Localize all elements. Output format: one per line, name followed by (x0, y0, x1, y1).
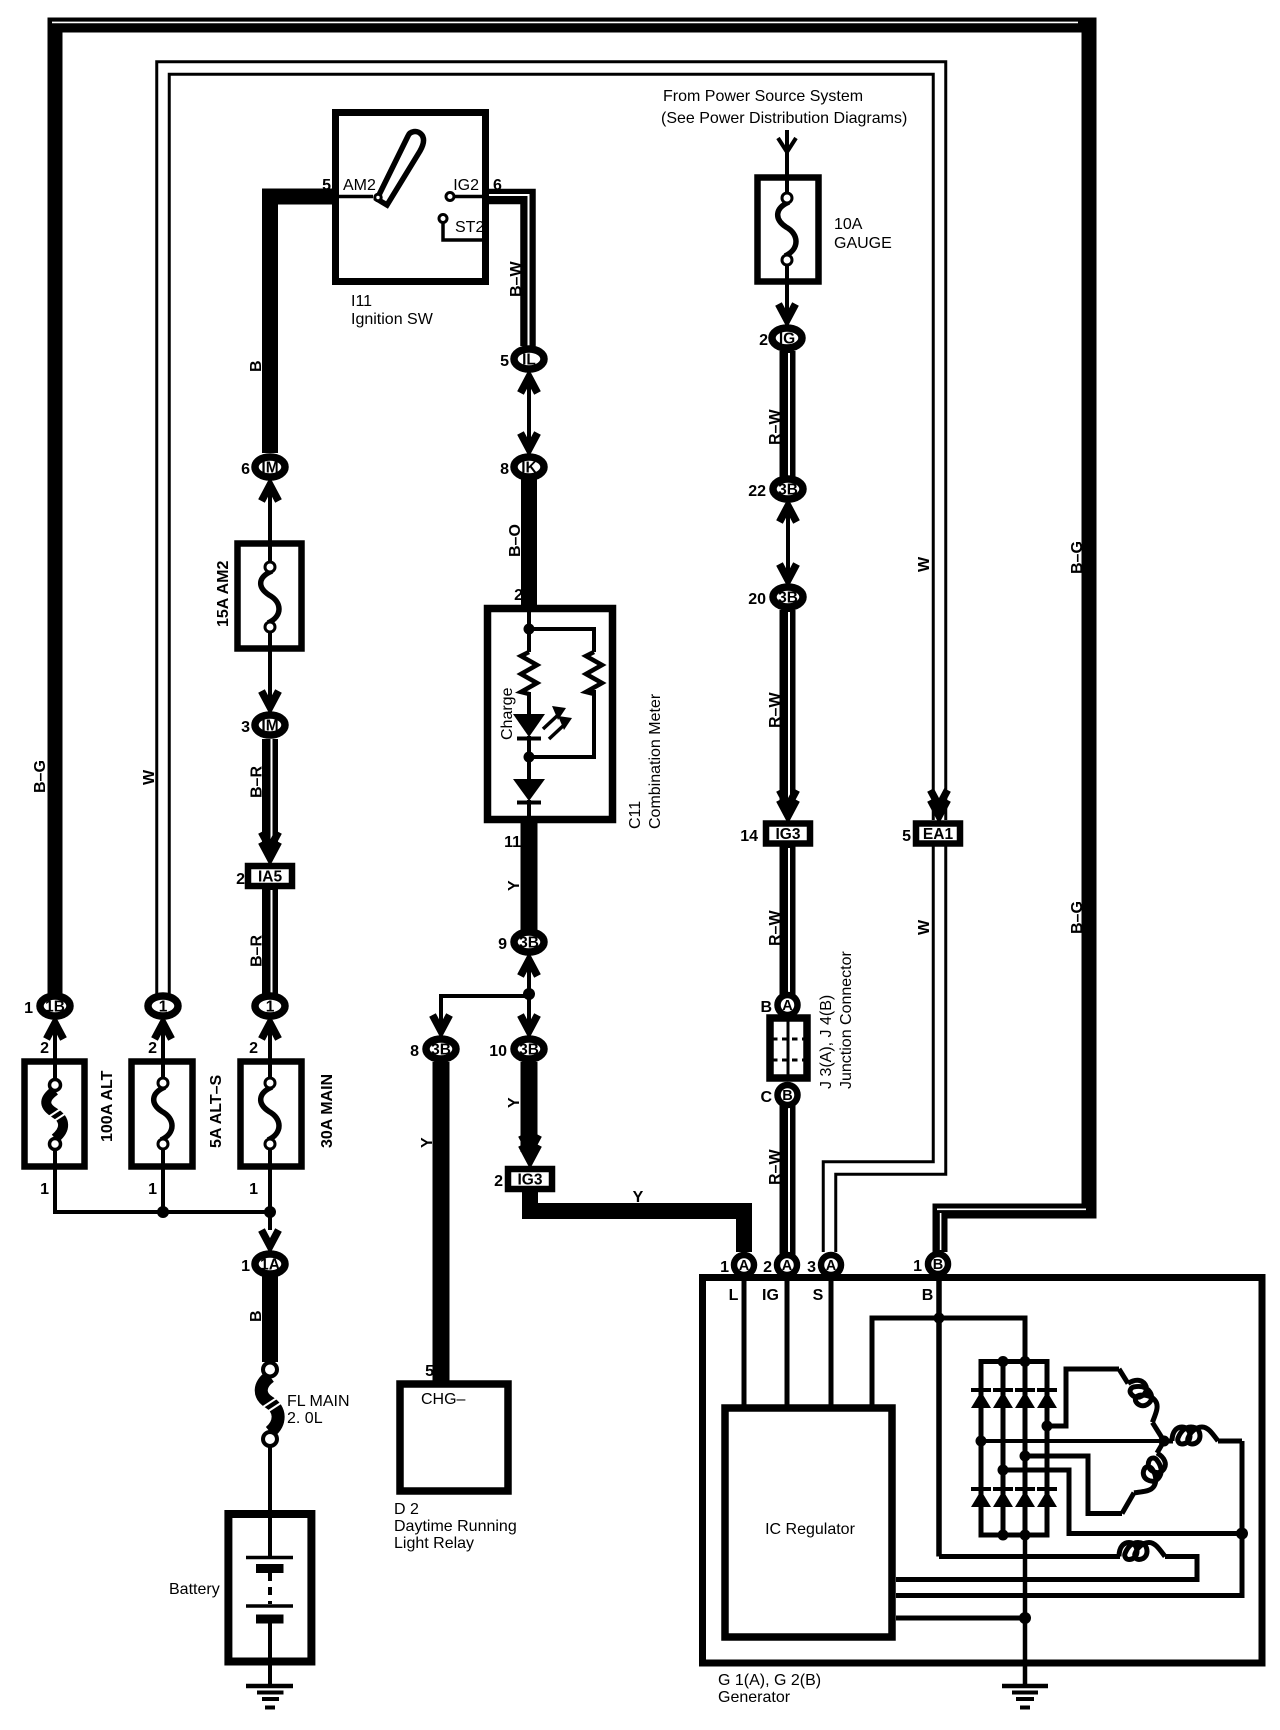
svg-text:I11: I11 (351, 293, 372, 310)
svg-text:B: B (782, 1088, 792, 1104)
ignition pin AM2 line (335, 195, 373, 199)
svg-text:B–G: B–G (1069, 541, 1086, 574)
fuse element 30A MAIN (261, 1078, 279, 1149)
label C11 Combination Meter (627, 693, 664, 829)
svg-text:EA1: EA1 (923, 826, 954, 843)
svg-text:R–W: R–W (767, 910, 784, 946)
wire thin junction bus at y1212 with 100A ALT leg (55, 1150, 270, 1212)
connector 1 1B (24, 996, 70, 1017)
stator tap from column 2 (998, 1465, 1240, 1534)
connector 2 IA5 (236, 866, 292, 888)
svg-text:GAUGE: GAUGE (834, 235, 892, 252)
svg-text:1: 1 (266, 999, 275, 1016)
wire R-W IG to 3B-22 (788, 351, 790, 477)
stator tap from column 4 (1042, 1369, 1120, 1432)
wire thin 5A ALT-S leg to junction (161, 1149, 165, 1212)
fuse element 5A ALT-S (154, 1078, 172, 1149)
svg-text:1A: 1A (260, 1257, 280, 1274)
wire thin connector 1 to fuse 5A ALT-S (161, 1019, 165, 1078)
wire Y IG3 to generator L terminal (530, 1192, 744, 1252)
wire B-R IM to IA5 (270, 739, 272, 845)
wire B-G main loop (left, top, right) (52, 22, 1089, 1252)
label W left (141, 769, 158, 785)
svg-text:CHG–: CHG– (421, 1391, 466, 1408)
wire thin FL MAIN to battery (268, 1447, 272, 1556)
label 30A MAIN (319, 1074, 336, 1148)
svg-text:30A MAIN: 30A MAIN (319, 1074, 336, 1148)
svg-text:1: 1 (159, 999, 168, 1016)
svg-text:3B: 3B (519, 935, 539, 952)
svg-text:R–W: R–W (767, 409, 784, 445)
label B-R lower (249, 935, 266, 967)
arrow double into IG3 mid (522, 1135, 539, 1161)
svg-text:(See Power Distribution Diagra: (See Power Distribution Diagrams) (661, 110, 907, 127)
svg-text:5: 5 (425, 1363, 434, 1380)
svg-text:14: 14 (740, 828, 758, 845)
svg-text:15A AM2: 15A AM2 (215, 561, 232, 627)
svg-text:Battery: Battery (169, 1581, 220, 1598)
svg-text:1: 1 (24, 1000, 33, 1017)
svg-text:2: 2 (763, 1259, 772, 1276)
connector 1 1A (241, 1254, 285, 1275)
svg-text:Daytime Running: Daytime Running (394, 1518, 517, 1535)
daytime running light relay box D2 (400, 1384, 508, 1491)
label Y mid (506, 1097, 523, 1108)
svg-text:W: W (916, 919, 933, 935)
arrow into 1A (262, 1230, 279, 1246)
rectifier columns (981, 1362, 1047, 1536)
charge indicator LED (513, 706, 572, 739)
label Y relay (419, 1137, 436, 1148)
arrow into connector 1 mid (155, 1023, 172, 1039)
svg-text:2: 2 (759, 332, 768, 349)
connector 6 IM (241, 457, 285, 478)
label ignition pins (322, 177, 502, 236)
label B-G left (32, 760, 49, 793)
label from power source (661, 88, 907, 127)
svg-text:IM: IM (261, 718, 278, 735)
label B-O (507, 524, 524, 557)
svg-text:A: A (782, 998, 793, 1014)
combination meter box C11 (488, 609, 613, 820)
svg-text:Ignition SW: Ignition SW (351, 311, 434, 328)
arrow into IL (521, 377, 538, 393)
svg-text:B: B (922, 1287, 934, 1304)
svg-text:B–G: B–G (32, 760, 49, 793)
label 100A ALT (99, 1070, 116, 1142)
arrow into 3B-8 (433, 1015, 450, 1031)
rectifier diodes top row (971, 1390, 1057, 1408)
svg-text:Y: Y (506, 1097, 523, 1108)
svg-text:2: 2 (514, 587, 523, 604)
svg-text:B–R: B–R (249, 766, 266, 798)
ignition pin IG2 line and contact (446, 193, 486, 201)
wire R-W 3B-20 to IG3 (788, 610, 790, 808)
wire W upper (hollow, from fuse 5A ALT-S up over top to EA1) (163, 68, 940, 995)
wire thin 3B-22 to 3B-20 (786, 502, 790, 584)
svg-text:B: B (760, 999, 772, 1016)
svg-text:W: W (916, 556, 933, 572)
connector 5 IL (500, 349, 544, 370)
svg-text:Combination Meter: Combination Meter (647, 693, 664, 829)
wire thin IM to fuse 15A AM2 (268, 481, 272, 562)
ground below generator (1002, 1686, 1048, 1708)
rectifier top bus (979, 1356, 1050, 1367)
resistor left in meter (521, 652, 537, 694)
wire R-W junction connector B to generator IG terminal (788, 1104, 790, 1255)
battery cells (246, 1558, 293, 1685)
wire thin fuse 15A AM2 to IM (268, 632, 272, 711)
connector 8 3B (410, 1039, 456, 1060)
fuse box 10A GAUGE (758, 178, 819, 282)
svg-text:10A: 10A (834, 216, 863, 233)
label D2 relay pin and name (394, 1363, 517, 1552)
arrow into IG (779, 304, 796, 320)
label generator terminals (729, 1287, 934, 1304)
stator tap from column 3 (1020, 1451, 1123, 1514)
connector 8 IK (500, 457, 544, 478)
arrow into 3B-9 (521, 960, 538, 976)
label J3 J4 junction connector (818, 950, 855, 1089)
connector 1 right (255, 996, 285, 1016)
diode in meter (513, 779, 545, 803)
label R-W 1 (767, 409, 784, 445)
ground below battery (246, 1686, 293, 1708)
svg-text:IC Regulator: IC Regulator (765, 1521, 855, 1538)
svg-text:8: 8 (500, 461, 509, 478)
svg-text:IK: IK (521, 460, 537, 477)
label generator name (718, 1672, 821, 1706)
svg-text:Generator: Generator (718, 1689, 791, 1706)
generator B terminal line (936, 1281, 942, 1557)
connector 20 3B (748, 587, 803, 608)
wire thin power source to fuse 10A GAUGE (785, 130, 789, 194)
IC regulator box (725, 1408, 892, 1637)
svg-text:1: 1 (148, 1181, 157, 1198)
fuse element 10A GAUGE (778, 193, 796, 265)
connector 2 IG (759, 328, 802, 349)
arrow into IM lower (262, 691, 279, 707)
svg-text:R–W: R–W (767, 692, 784, 728)
svg-text:IG3: IG3 (518, 1172, 543, 1189)
connector 10 3B (489, 1039, 544, 1060)
svg-text:6: 6 (241, 461, 250, 478)
generator ground line (1023, 1535, 1028, 1684)
wire Y 3B-10 to IG3 (521, 1062, 538, 1152)
arrow into 1B (47, 1023, 64, 1039)
connector 2 A generator IG (763, 1255, 797, 1276)
generator terminal lines L IG S (744, 1281, 831, 1406)
svg-text:8: 8 (410, 1043, 419, 1060)
svg-text:2: 2 (40, 1040, 49, 1057)
label 15A AM2 (215, 561, 232, 627)
svg-text:2: 2 (236, 871, 245, 888)
svg-text:3: 3 (241, 719, 250, 736)
svg-text:2. 0L: 2. 0L (287, 1410, 323, 1427)
svg-text:R–W: R–W (767, 1149, 784, 1185)
meter internal wiring (524, 608, 595, 820)
svg-text:1: 1 (249, 1181, 258, 1198)
svg-text:W: W (141, 769, 158, 785)
label B-R upper (249, 766, 266, 798)
svg-text:10: 10 (489, 1043, 507, 1060)
svg-text:B–W: B–W (508, 261, 525, 297)
stator tap from column 1 to star point (976, 1436, 1163, 1447)
label B upper (248, 360, 265, 372)
label B-G right lower (1069, 901, 1086, 934)
stator coil phase 2 (1122, 1441, 1169, 1514)
svg-text:Y: Y (419, 1137, 436, 1148)
wire thin 3B to junction and branch to 3B-8 (441, 954, 529, 1035)
fuse box 5A ALT-S (132, 1062, 193, 1167)
svg-text:ST2: ST2 (455, 219, 484, 236)
connector junction B (760, 1085, 797, 1106)
rectifier bottom bus (979, 1530, 1050, 1541)
IC regulator label (765, 1521, 855, 1538)
svg-text:2: 2 (249, 1040, 258, 1057)
svg-text:2: 2 (494, 1173, 503, 1190)
resistor right in meter (586, 652, 602, 694)
svg-text:Charge: Charge (499, 687, 516, 740)
connector junction A (760, 995, 797, 1016)
fusible link element 100A ALT (43, 1080, 67, 1150)
node junction 3B branch (523, 988, 535, 1000)
svg-text:11: 11 (504, 834, 521, 851)
wire thin 1B to fuse 100A ALT (53, 1019, 57, 1080)
wire thin connector 1 to fuse 30A MAIN (268, 1017, 272, 1078)
svg-text:1B: 1B (45, 999, 65, 1016)
wire thin fuse 30A MAIN down to junction (268, 1149, 272, 1230)
rectifier diodes bottom row (971, 1489, 1057, 1507)
svg-text:IA5: IA5 (258, 869, 283, 886)
connector 14 IG3 (740, 824, 810, 846)
svg-text:FL MAIN: FL MAIN (287, 1393, 350, 1410)
svg-text:B: B (248, 1310, 265, 1322)
arrow into 3B-10 (521, 1015, 538, 1031)
svg-text:5A ALT–S: 5A ALT–S (208, 1074, 225, 1148)
svg-text:C11: C11 (627, 801, 644, 829)
wire Y meter pin11 to 3B (521, 822, 538, 930)
connector 3 A generator S (807, 1255, 841, 1276)
junction connector block J3 J4 (770, 1018, 807, 1078)
svg-text:A: A (739, 1258, 750, 1274)
fuse box 100A ALT (25, 1062, 85, 1167)
label B-G right upper (1069, 541, 1086, 574)
label 10A GAUGE (834, 216, 892, 252)
label meter pins (504, 587, 523, 851)
connector 3 IM (241, 715, 285, 736)
svg-text:22: 22 (748, 483, 766, 500)
ignition key symbol (375, 132, 424, 205)
connector 1 B generator B (913, 1254, 948, 1275)
svg-text:B: B (248, 360, 265, 372)
svg-text:5: 5 (322, 177, 331, 194)
wire thin IL to IK (527, 373, 531, 453)
generator B bus to regulator and rectifier (872, 1313, 1025, 1407)
connector 5 EA1 (902, 824, 960, 846)
arrow into power source line (778, 138, 796, 152)
svg-text:A: A (782, 1258, 793, 1274)
connector 9 3B (498, 932, 544, 953)
svg-text:B–R: B–R (249, 935, 266, 967)
svg-text:1: 1 (40, 1181, 49, 1198)
svg-text:1: 1 (241, 1258, 250, 1275)
arrow double into IA5 (262, 832, 279, 858)
svg-text:B–G: B–G (1069, 901, 1086, 934)
arrow into 3B-20 (780, 564, 797, 580)
ignition pin ST2 line and contact (439, 215, 486, 241)
label Battery (169, 1581, 220, 1598)
stator coil phase 3 (1159, 1427, 1243, 1447)
wire B 1A to FL MAIN (262, 1276, 278, 1362)
svg-text:3B: 3B (519, 1042, 539, 1059)
svg-text:2: 2 (148, 1040, 157, 1057)
connector 1 mid (148, 996, 178, 1016)
svg-text:IL: IL (522, 352, 536, 369)
regulator ground line (896, 1612, 1031, 1624)
fuse box 15A AM2 (238, 544, 302, 649)
ignition switch box I11 (336, 113, 486, 282)
label Y meter (506, 880, 523, 891)
svg-text:3B: 3B (778, 590, 798, 607)
svg-text:A: A (826, 1258, 837, 1274)
svg-text:D 2: D 2 (394, 1501, 419, 1518)
svg-text:IG: IG (779, 331, 795, 348)
svg-text:S: S (813, 1287, 824, 1304)
svg-text:Light Relay: Light Relay (394, 1535, 474, 1552)
svg-text:5: 5 (902, 828, 911, 845)
connector 2 IG3 (494, 1169, 552, 1190)
svg-text:Junction Connector: Junction Connector (838, 950, 855, 1089)
stator coil phase 1 (1119, 1369, 1164, 1441)
arrow double into EA1 (931, 790, 948, 816)
label Y horizontal (633, 1189, 644, 1206)
svg-text:J 3(A), J 4(B): J 3(A), J 4(B) (818, 995, 835, 1089)
svg-text:1: 1 (720, 1259, 729, 1276)
svg-text:IG3: IG3 (776, 826, 801, 843)
svg-text:3: 3 (807, 1259, 816, 1276)
svg-text:AM2: AM2 (343, 177, 376, 194)
label Charge (499, 687, 516, 740)
node junction at fuse bus left (157, 1206, 276, 1218)
label B-W (508, 261, 525, 297)
connector 22 3B (748, 479, 803, 500)
svg-text:IG: IG (762, 1287, 779, 1304)
svg-text:6: 6 (493, 177, 502, 194)
fuse element 15A AM2 (261, 562, 279, 632)
label B lower (248, 1310, 265, 1322)
svg-text:5: 5 (500, 353, 509, 370)
wire R-W IG3 to junction connector A (788, 846, 790, 996)
label I11 Ignition SW (351, 293, 434, 328)
svg-text:L: L (729, 1287, 739, 1304)
arrow into IM upper (262, 485, 279, 501)
svg-text:3B: 3B (778, 482, 798, 499)
svg-text:3B: 3B (431, 1042, 451, 1059)
svg-text:Y: Y (506, 880, 523, 891)
label R-W 3 (767, 910, 784, 946)
label fuse pin numbers (40, 1040, 258, 1198)
arrow from 3B-22 (780, 506, 797, 522)
wire B-O IK to combination meter (521, 479, 537, 608)
wire W lower (hollow, EA1 to generator S terminal) (830, 846, 940, 1252)
svg-text:Y: Y (633, 1189, 644, 1206)
arrow double into IG3 right (780, 790, 797, 816)
wire Y 3B-8 to daytime relay (433, 1062, 450, 1381)
svg-text:100A ALT: 100A ALT (99, 1070, 116, 1142)
label W right upper (916, 556, 933, 572)
label FL MAIN (287, 1393, 350, 1427)
svg-text:From Power Source System: From Power Source System (663, 88, 863, 105)
svg-text:IG2: IG2 (453, 177, 479, 194)
svg-text:20: 20 (748, 591, 766, 608)
svg-text:G 1(A), G 2(B): G 1(A), G 2(B) (718, 1672, 821, 1689)
svg-text:B: B (933, 1257, 943, 1273)
generator box G1 G2 (703, 1278, 1263, 1664)
wire B from ignition AM2 to connector IM (270, 197, 332, 454)
wire B-R IA5 to connector 1 (270, 888, 272, 995)
svg-text:C: C (760, 1089, 772, 1106)
rotor field coil (896, 1543, 1197, 1580)
stator neutral line to regulator (896, 1441, 1248, 1596)
label W right lower (916, 919, 933, 935)
svg-text:9: 9 (498, 936, 507, 953)
fusible link FL MAIN 2.0L (258, 1363, 282, 1447)
label 5A ALT-S (208, 1074, 225, 1148)
svg-text:1: 1 (913, 1258, 922, 1275)
wire B-W ignition IG2 to IL (489, 195, 529, 346)
wire thin fuse 10A GAUGE to IG (785, 264, 789, 325)
svg-text:IM: IM (261, 460, 278, 477)
arrow into connector 1 right (262, 1023, 279, 1039)
battery box (228, 1514, 311, 1662)
arrow into IK (521, 433, 538, 449)
fuse box 30A MAIN (241, 1062, 302, 1167)
svg-text:B–O: B–O (507, 524, 524, 557)
connector 1 A generator L (720, 1255, 754, 1276)
label R-W 4 (767, 1149, 784, 1185)
label R-W 2 (767, 692, 784, 728)
